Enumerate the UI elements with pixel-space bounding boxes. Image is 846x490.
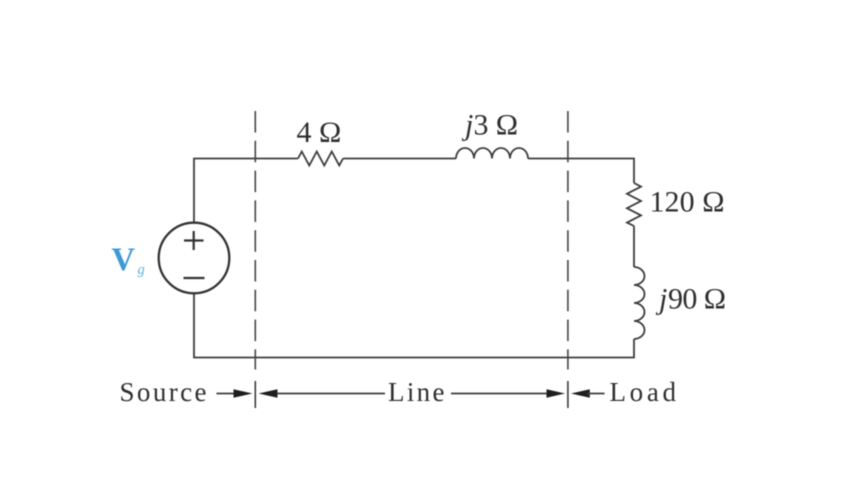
plus polarity mark [184,231,204,250]
svg-text:3 Ω: 3 Ω [474,109,519,142]
arrow source right [217,393,236,395]
wire inductor to right corner [528,159,634,184]
arrow line left [259,389,278,398]
wire top-left from source to resistor [194,159,298,223]
arrow load left [571,389,590,398]
voltage source Vg circle [159,223,230,294]
tick at source/line boundary [254,381,256,408]
minus polarity mark [184,277,205,279]
arrow line right [451,393,547,395]
inductor LL (j90 ohm) [634,267,645,339]
wire bottom loop [194,293,634,357]
label j3 ohm [461,109,473,142]
tick at line/load boundary [567,381,569,408]
resistor R (4 ohm) [298,152,343,166]
svg-text:4 Ω: 4 Ω [297,116,342,149]
dashed boundary line/load [567,111,569,370]
inductor L (j3 ohm) [456,148,528,159]
svg-text:Load: Load [610,377,677,407]
dashed boundary source/line [254,111,256,370]
svg-text:g: g [138,262,145,278]
svg-text:V: V [112,242,136,278]
svg-text:Line: Line [388,377,445,407]
wire between resistor and inductor [343,158,456,160]
svg-text:120 Ω: 120 Ω [650,186,725,219]
resistor RL (120 ohm) [627,183,641,226]
label j90 ohm [655,283,667,316]
wire between 120 ohm and j90 ohm [633,226,635,267]
svg-text:90 Ω: 90 Ω [668,283,726,316]
